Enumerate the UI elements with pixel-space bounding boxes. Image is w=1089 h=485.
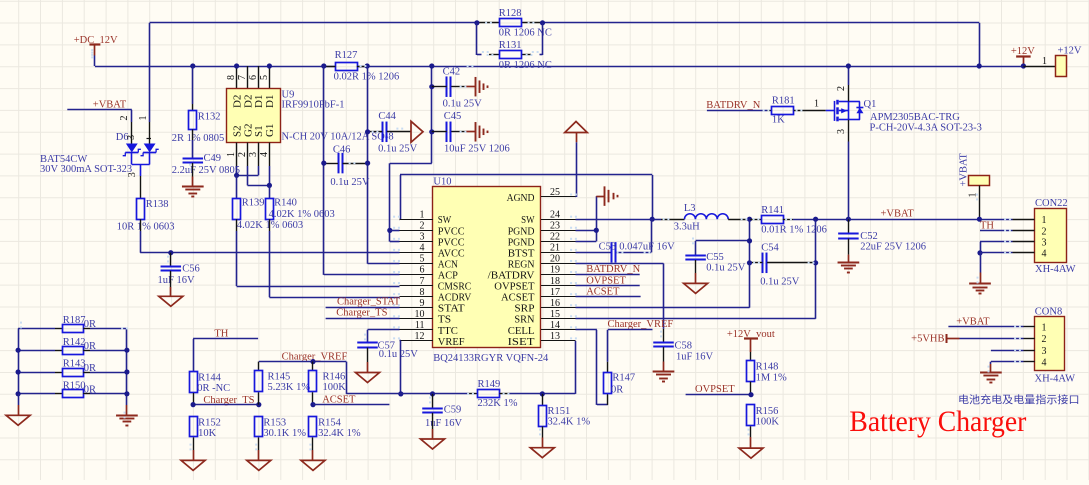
svg-text:+VBAT: +VBAT <box>956 316 990 327</box>
svg-text:4: 4 <box>1042 249 1047 260</box>
wire +VBAT to D6 <box>67 109 132 111</box>
svg-text:C46: C46 <box>333 144 351 155</box>
svg-text:6: 6 <box>248 75 259 80</box>
resistor R181 <box>767 110 772 112</box>
wire top rail left drop to D6 <box>149 23 151 122</box>
capacitor C42 <box>429 84 434 89</box>
wire SW to L3 <box>576 219 652 221</box>
svg-text:G1: G1 <box>264 124 276 137</box>
svg-text:30.1K 1%: 30.1K 1% <box>263 428 306 439</box>
wire CON8 pin2 <box>960 338 1024 340</box>
svg-text:0R: 0R <box>84 341 96 352</box>
svg-text:C54: C54 <box>761 243 779 254</box>
svg-text:10R 1% 0603: 10R 1% 0603 <box>117 222 175 233</box>
svg-text:R141: R141 <box>761 205 784 216</box>
capacitor C58 <box>663 329 665 343</box>
ground CON8 <box>980 372 1002 374</box>
svg-text:R146: R146 <box>323 371 346 382</box>
svg-text:1: 1 <box>1042 322 1047 333</box>
ground C45 <box>475 122 477 142</box>
resistor R148 <box>750 352 752 361</box>
svg-text:CON22: CON22 <box>1035 198 1068 209</box>
resistor R153 <box>255 417 263 437</box>
ground C52 <box>848 239 850 255</box>
resistor R187 <box>18 328 55 330</box>
svg-text:4: 4 <box>420 243 425 254</box>
svg-text:Charger_STAT: Charger_STAT <box>337 296 401 307</box>
svg-text:3.3uH: 3.3uH <box>674 221 700 232</box>
net OVPSET at pin18 <box>576 285 640 287</box>
svg-text:8: 8 <box>420 287 425 298</box>
svg-text:R147: R147 <box>612 373 635 384</box>
svg-text:17: 17 <box>550 287 560 298</box>
svg-text:4.02K 1% 0603: 4.02K 1% 0603 <box>269 209 335 220</box>
capacitor C44 <box>382 122 384 143</box>
resistor bank R187 R142 R143 R150 <box>18 328 20 393</box>
wire Charger_TS row <box>193 404 259 406</box>
svg-text:R144: R144 <box>198 372 222 383</box>
resistor R132 <box>190 63 195 68</box>
capacitor C49 <box>192 129 194 140</box>
mosfet U9 IRF9910 <box>236 66 238 88</box>
svg-text:XH-4AW: XH-4AW <box>1035 264 1076 275</box>
svg-text:15: 15 <box>550 309 560 320</box>
svg-text:0R: 0R <box>84 319 96 330</box>
svg-text:1: 1 <box>138 116 149 121</box>
transistor Q1 PMOS <box>834 101 836 121</box>
ground C58 <box>663 347 665 361</box>
svg-text:1: 1 <box>1042 56 1047 67</box>
resistor R150 <box>18 393 55 395</box>
svg-text:30V 300mA SOT-323: 30V 300mA SOT-323 <box>40 164 132 175</box>
connector +12V pin <box>1023 66 1056 68</box>
svg-text:0.1u 25V: 0.1u 25V <box>379 349 419 360</box>
ground C49 <box>192 163 194 177</box>
resistor R131 <box>476 23 478 55</box>
svg-text:100K: 100K <box>323 382 347 393</box>
wire PGND pins <box>576 230 597 232</box>
svg-text:2.2uF 25V 0805: 2.2uF 25V 0805 <box>172 165 240 176</box>
resistor R127 <box>336 63 358 71</box>
svg-text:5: 5 <box>259 75 270 80</box>
svg-text:14: 14 <box>550 320 560 331</box>
svg-text:+VBAT: +VBAT <box>959 153 970 187</box>
net BATDRV_N at pin19 <box>576 274 640 276</box>
svg-text:ACSET: ACSET <box>586 287 620 298</box>
svg-text:23: 23 <box>550 220 560 231</box>
ground R156 <box>750 437 752 448</box>
ground C55 <box>695 260 697 273</box>
svg-text:2: 2 <box>237 152 248 157</box>
wire Charger_VREF row <box>259 361 347 363</box>
svg-text:2: 2 <box>420 220 425 231</box>
svg-text:R127: R127 <box>335 50 358 61</box>
svg-text:CON8: CON8 <box>1035 306 1062 317</box>
svg-text:R156: R156 <box>756 406 779 417</box>
svg-text:0R 1206 NC: 0R 1206 NC <box>499 28 552 39</box>
svg-text:U10: U10 <box>433 176 451 187</box>
net ACSET at pin17 <box>576 296 641 298</box>
svg-text:1uF 16V: 1uF 16V <box>676 352 713 363</box>
wire Charger_VREF to R147 <box>608 329 653 331</box>
resistor R152 <box>190 417 198 437</box>
svg-text:Charger_VREF: Charger_VREF <box>608 319 674 330</box>
svg-text:2R 1% 0805: 2R 1% 0805 <box>172 133 225 144</box>
svg-text:19: 19 <box>550 265 560 276</box>
svg-text:0R: 0R <box>611 384 623 395</box>
resistor R140 <box>269 185 271 198</box>
capacitor C45 <box>429 129 434 134</box>
svg-text:R139: R139 <box>242 197 265 208</box>
ground R151 <box>542 438 544 448</box>
wire +DC_12V rail <box>95 66 336 68</box>
svg-text:BATDRV_N: BATDRV_N <box>586 264 640 275</box>
svg-text:C49: C49 <box>204 153 222 164</box>
U9 bottom pins <box>236 143 238 167</box>
svg-text:R181: R181 <box>772 95 795 106</box>
svg-text:2: 2 <box>1042 226 1047 237</box>
resistor R144 <box>190 372 198 393</box>
svg-text:0.02R 1% 1206: 0.02R 1% 1206 <box>334 72 400 83</box>
ground R154 <box>312 450 314 460</box>
svg-text:13: 13 <box>550 331 560 342</box>
wire AGND to power port <box>575 196 578 198</box>
capacitor C55 <box>696 240 750 242</box>
svg-text:P-CH-20V-4.3A SOT-23-3: P-CH-20V-4.3A SOT-23-3 <box>870 123 982 134</box>
wire CON22 pins 3-4 ground <box>980 241 1013 243</box>
svg-text:D1: D1 <box>264 95 276 108</box>
wire R149 to ISET <box>509 393 575 395</box>
wire CON8 pin3 <box>991 350 1024 352</box>
inductor L3 <box>685 214 729 219</box>
svg-text:0R 1206 NC: 0R 1206 NC <box>499 60 552 71</box>
svg-text:32.4K 1%: 32.4K 1% <box>318 428 361 439</box>
svg-text:OVPSET: OVPSET <box>695 384 735 395</box>
capacitor C54 <box>762 253 764 273</box>
wire VREF pin12 down <box>400 340 401 342</box>
svg-text:7: 7 <box>420 276 425 287</box>
wire BATDRV_N to R181 <box>707 110 767 112</box>
svg-text:7: 7 <box>237 75 248 80</box>
svg-text:1: 1 <box>1042 215 1047 226</box>
Q1 pin2 wire <box>848 66 850 85</box>
svg-text:2: 2 <box>836 86 847 91</box>
svg-text:1: 1 <box>814 99 819 110</box>
svg-text:R154: R154 <box>318 417 342 428</box>
resistor R143 <box>18 372 55 374</box>
svg-text:R128: R128 <box>499 8 522 19</box>
svg-text:0.1u 25V: 0.1u 25V <box>760 276 800 287</box>
svg-text:0.1u 25V: 0.1u 25V <box>330 177 370 188</box>
wire TH left <box>193 338 258 340</box>
svg-text:C56: C56 <box>182 264 200 275</box>
svg-text:1K: 1K <box>772 115 785 126</box>
resistor R156 <box>747 405 755 426</box>
svg-text:3: 3 <box>248 152 259 157</box>
capacitor C53 BTST <box>576 252 612 254</box>
svg-text:2: 2 <box>1042 334 1047 345</box>
svg-text:1: 1 <box>226 152 237 157</box>
resistor R154 <box>309 417 317 437</box>
wire PVCC input column <box>431 66 433 163</box>
svg-text:R145: R145 <box>268 371 291 382</box>
svg-text:L3: L3 <box>684 203 696 214</box>
svg-text:C58: C58 <box>675 340 693 351</box>
resistor R146 <box>312 362 314 371</box>
wire G2-G1 tie <box>247 166 249 185</box>
capacitor C56 <box>168 250 173 255</box>
resistor R128 <box>477 22 500 24</box>
svg-text:3: 3 <box>1042 238 1047 249</box>
ground C42 <box>475 77 477 97</box>
wire ACN column <box>367 66 369 264</box>
svg-text:0.01R 1% 1206: 0.01R 1% 1206 <box>761 225 827 236</box>
resistor R139 <box>236 175 238 198</box>
svg-text:100K: 100K <box>756 416 780 427</box>
svg-text:0.047uF 16V: 0.047uF 16V <box>619 242 675 253</box>
svg-text:R143: R143 <box>63 359 86 370</box>
svg-text:R149: R149 <box>478 379 501 390</box>
ground bank right <box>126 405 128 415</box>
svg-text:3: 3 <box>126 135 137 140</box>
svg-text:24: 24 <box>550 209 560 220</box>
decor specks <box>393 216 395 218</box>
svg-text:1: 1 <box>420 209 425 220</box>
svg-text:R148: R148 <box>756 362 779 373</box>
svg-text:C55: C55 <box>706 252 724 263</box>
svg-text:R151: R151 <box>548 406 571 417</box>
svg-text:22uF 25V 1206: 22uF 25V 1206 <box>860 242 926 253</box>
svg-text:18: 18 <box>550 276 560 287</box>
wire SW loop pin1 <box>399 219 402 221</box>
Q1 pin3 wire <box>848 120 850 142</box>
svg-text:Charger_TS: Charger_TS <box>336 308 387 319</box>
svg-text:20: 20 <box>550 254 560 265</box>
svg-text:232K 1%: 232K 1% <box>478 398 518 409</box>
svg-text:Q1: Q1 <box>864 99 877 110</box>
svg-text:10uF 25V 1206: 10uF 25V 1206 <box>444 144 510 155</box>
ground C59 <box>432 413 434 429</box>
svg-text:BATDRV_N: BATDRV_N <box>706 100 760 111</box>
capacitor C46 <box>338 153 340 174</box>
resistor R151 <box>542 394 544 406</box>
capacitor C59 <box>430 391 435 396</box>
U10 pin25 AGND <box>541 196 576 198</box>
svg-text:2: 2 <box>119 116 130 121</box>
wire +DC_12V stem <box>94 56 96 67</box>
wire top rail right drop <box>979 23 981 66</box>
wire ACP column <box>323 66 325 275</box>
svg-text:8: 8 <box>226 75 237 80</box>
svg-text:R152: R152 <box>198 417 221 428</box>
svg-text:C59: C59 <box>444 404 462 415</box>
wire Charger_VREF rail <box>346 393 468 395</box>
wire OVPSET row <box>686 394 751 396</box>
svg-text:12: 12 <box>415 331 425 342</box>
resistor R141 <box>750 219 762 221</box>
svg-text:0R -NC: 0R -NC <box>197 383 230 394</box>
power port AGND triangle <box>576 133 578 143</box>
wire top bypass rail <box>150 22 477 24</box>
svg-text:1uF 16V: 1uF 16V <box>158 275 195 286</box>
svg-text:+VBAT: +VBAT <box>881 209 915 220</box>
capacitor C52 <box>848 219 850 234</box>
wire R139 to CMSRC <box>236 219 238 231</box>
resistor R145 <box>258 362 260 371</box>
wire REGN to C58 <box>576 263 664 265</box>
svg-text:22: 22 <box>550 232 560 243</box>
svg-text:+5VHB: +5VHB <box>911 333 944 344</box>
svg-text:0.1u 25V: 0.1u 25V <box>706 263 746 274</box>
wire R138 to AVCC <box>140 219 142 231</box>
wire SRP <box>576 307 750 309</box>
svg-text:Battery Charger: Battery Charger <box>849 405 1026 438</box>
wire CON8 pin4 <box>991 361 1024 363</box>
svg-text:11: 11 <box>415 320 425 331</box>
svg-text:9: 9 <box>420 298 425 309</box>
svg-text:N-CH 20V 10A/12A SO-8: N-CH 20V 10A/12A SO-8 <box>282 132 394 143</box>
svg-text:R140: R140 <box>274 197 297 208</box>
wire R141 to +VBAT <box>793 219 1013 221</box>
resistor R147 <box>604 373 612 394</box>
ground C56 <box>170 271 172 287</box>
wire ACSET row <box>313 404 389 406</box>
svg-text:XH-4AW: XH-4AW <box>1035 373 1076 384</box>
svg-text:25: 25 <box>550 187 560 198</box>
svg-text:IRF9910PbF-1: IRF9910PbF-1 <box>282 99 345 110</box>
svg-text:R187: R187 <box>63 315 86 326</box>
svg-text:3: 3 <box>836 129 847 134</box>
svg-text:ISET: ISET <box>508 336 535 348</box>
ground bank left <box>18 394 20 405</box>
ground R153 <box>258 450 260 460</box>
power port arrow C44 <box>411 121 423 142</box>
svg-text:0.1u 25V: 0.1u 25V <box>443 98 483 109</box>
svg-text:3: 3 <box>420 232 425 243</box>
svg-text:APM2305BAC-TRG: APM2305BAC-TRG <box>870 112 960 123</box>
connector CON8 <box>1035 317 1065 371</box>
resistor R149 <box>468 393 478 395</box>
svg-text:0R: 0R <box>84 385 96 396</box>
svg-text:3: 3 <box>1042 346 1047 357</box>
resistor R142 <box>18 350 55 352</box>
wire CELL loop <box>576 329 597 331</box>
svg-text:R142: R142 <box>63 337 86 348</box>
svg-text:10: 10 <box>415 309 425 320</box>
svg-text:32.4K 1%: 32.4K 1% <box>548 416 591 427</box>
svg-text:4: 4 <box>1042 358 1047 369</box>
svg-text:C45: C45 <box>444 111 462 122</box>
svg-text:C53: C53 <box>599 242 617 253</box>
svg-text:BQ24133RGYR VQFN-24: BQ24133RGYR VQFN-24 <box>433 353 549 364</box>
svg-text:1uF 16V: 1uF 16V <box>425 418 462 429</box>
svg-text:C44: C44 <box>378 111 396 122</box>
connector pad +VBAT <box>969 176 990 186</box>
wire SRN <box>576 318 816 320</box>
ground R152 <box>193 450 195 460</box>
svg-text:5: 5 <box>420 254 425 265</box>
svg-text:OVPSET: OVPSET <box>586 275 626 286</box>
svg-text:0.1u 25V: 0.1u 25V <box>378 144 418 155</box>
IC U10 BQ24133 <box>433 187 541 348</box>
svg-text:0R: 0R <box>84 363 96 374</box>
svg-text:6: 6 <box>420 265 425 276</box>
wire CON8 pin1 <box>948 326 1023 328</box>
svg-text:4: 4 <box>259 152 270 157</box>
ground PGND <box>596 196 604 198</box>
diode D6 BAT54CW <box>131 122 133 144</box>
svg-text:R138: R138 <box>146 199 169 210</box>
svg-text:+12V: +12V <box>1058 45 1082 56</box>
ground C57 <box>367 348 369 362</box>
svg-text:21: 21 <box>550 243 560 254</box>
svg-text:VREF: VREF <box>438 336 465 348</box>
svg-text:16: 16 <box>550 298 560 309</box>
wire TH to CON22 pin2 <box>980 230 1013 232</box>
ground CON22 <box>969 283 991 285</box>
wire R140 to ACDRV <box>269 219 271 231</box>
svg-text:AGND: AGND <box>507 192 535 204</box>
svg-text:C42: C42 <box>443 67 461 78</box>
connector CON22 <box>1035 209 1067 263</box>
svg-text:R131: R131 <box>499 40 522 51</box>
svg-text:R132: R132 <box>198 112 221 123</box>
svg-text:R153: R153 <box>263 417 286 428</box>
svg-text:5.23K 1%: 5.23K 1% <box>268 382 311 393</box>
svg-text:10K: 10K <box>198 428 217 439</box>
capacitor C57 <box>368 329 400 331</box>
wire S2-S1 tie <box>236 166 238 175</box>
svg-text:R150: R150 <box>63 380 86 391</box>
svg-text:1M 1%: 1M 1% <box>756 372 787 383</box>
resistor R138 <box>137 199 145 220</box>
